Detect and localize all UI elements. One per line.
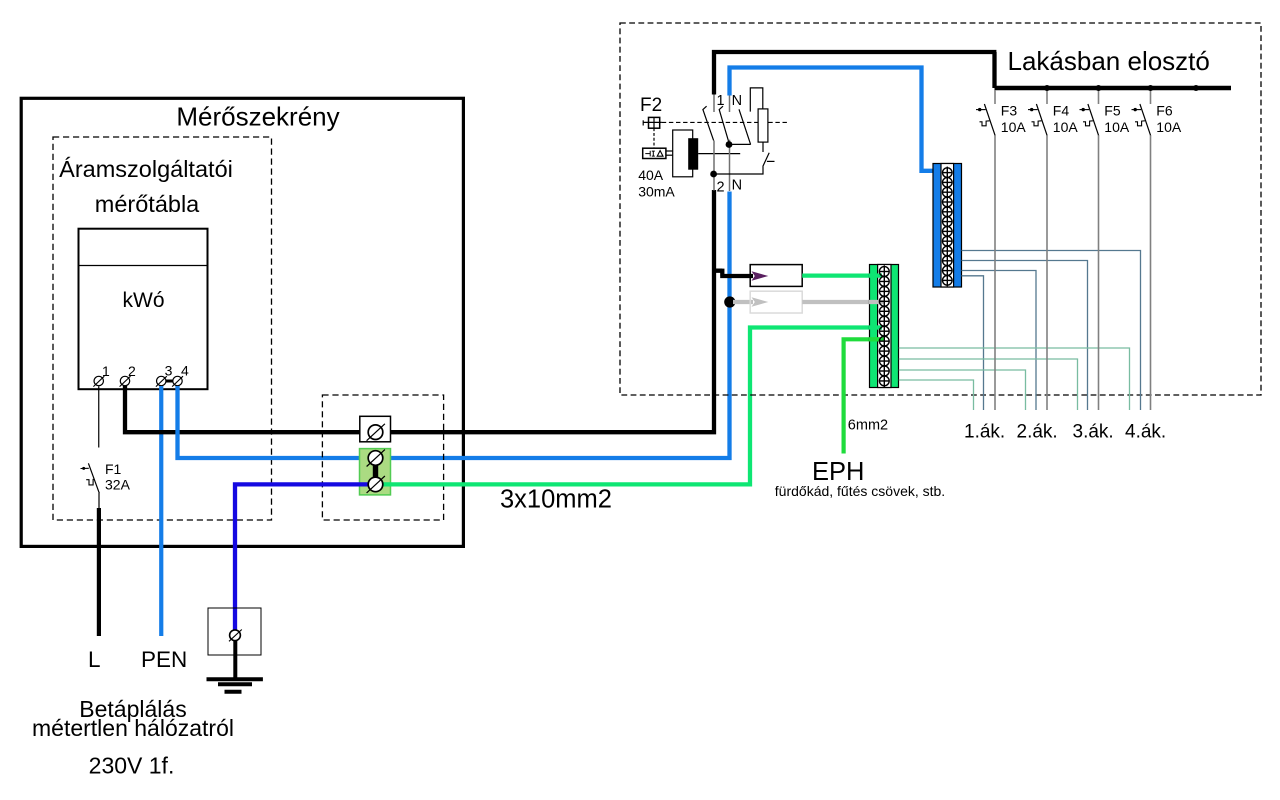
junction dot bus F4 bbox=[1044, 85, 1050, 91]
N block terminal screws bbox=[943, 167, 953, 287]
wire F1 lower stub bbox=[98, 493, 100, 508]
svg-text:mérőtábla: mérőtábla bbox=[95, 191, 200, 217]
N tap arrowhead (gray) bbox=[752, 297, 769, 307]
svg-text:2: 2 bbox=[717, 180, 725, 196]
svg-text:4.ák.: 4.ák. bbox=[1125, 422, 1166, 443]
wire gray end into PE block bbox=[869, 300, 884, 304]
junction dot bus extra bbox=[1193, 85, 1199, 91]
phase tap arrow shaft bbox=[714, 269, 753, 276]
phase tap arrowhead (purple) bbox=[752, 271, 769, 281]
device box 2 bbox=[750, 291, 802, 313]
svg-text:10A: 10A bbox=[1001, 119, 1027, 135]
pin label N top bbox=[732, 93, 742, 109]
svg-text:3x10mm2: 3x10mm2 bbox=[500, 486, 612, 514]
wire N to circuit 2 bbox=[962, 271, 1037, 411]
wire PEN (terminal 3 down) bbox=[159, 386, 163, 636]
label F6 rating 10A bbox=[1156, 119, 1182, 135]
wire PE to circuit 1 bbox=[899, 380, 974, 410]
pin number 1 bbox=[102, 363, 110, 379]
pole N switch blade bbox=[719, 106, 729, 142]
label 40A bbox=[638, 167, 664, 183]
svg-text:PEN: PEN bbox=[141, 647, 187, 672]
wire link terminals 3-4 bbox=[161, 380, 178, 383]
wire feeder F3 down bbox=[994, 135, 996, 410]
label métertlen hálózatról bbox=[32, 715, 234, 741]
breaker F4 bbox=[1028, 104, 1047, 135]
current transformer core (black) bbox=[688, 138, 698, 170]
differential sensor box bbox=[643, 148, 666, 158]
breaker F3 bbox=[976, 104, 995, 135]
svg-text:1: 1 bbox=[102, 363, 110, 379]
label L bbox=[88, 647, 101, 672]
wire N terminal4 down right (light blue) bbox=[178, 192, 732, 461]
test circuit link to N bbox=[730, 143, 751, 145]
label Áramszolgáltatói bbox=[59, 156, 233, 182]
dashed mechanical link horizontal bbox=[662, 121, 789, 123]
bus bar phase (thick black) bbox=[995, 86, 1232, 90]
junction dot bus F5 bbox=[1096, 85, 1102, 91]
terminal 1 of meter bbox=[93, 376, 104, 386]
label F5 rating 10A bbox=[1104, 119, 1130, 135]
label F5 bbox=[1104, 103, 1121, 119]
resistor lower lead bbox=[762, 142, 764, 152]
svg-text:1: 1 bbox=[717, 93, 725, 109]
test switch blade bbox=[763, 153, 775, 167]
label fürdőkád bbox=[775, 483, 945, 499]
svg-text:Mérőszekrény: Mérőszekrény bbox=[176, 101, 339, 131]
svg-text:N: N bbox=[732, 93, 742, 109]
test branch lower lead bbox=[714, 167, 763, 175]
svg-text:F5: F5 bbox=[1104, 103, 1121, 119]
label F1 bbox=[105, 461, 122, 477]
wire feeder F5 down bbox=[1098, 135, 1100, 410]
wire N to circuit 1 bbox=[962, 276, 984, 410]
pole 1 switch blade bbox=[703, 106, 714, 140]
label kWó bbox=[123, 289, 165, 312]
svg-text:L: L bbox=[88, 647, 101, 672]
wire N to circuit 4 bbox=[962, 251, 1141, 411]
label EPH bbox=[812, 458, 864, 486]
label F6 bbox=[1156, 103, 1173, 119]
wire green from box1 to PE block bbox=[802, 274, 882, 278]
wire feeder stub F4 bbox=[1046, 90, 1048, 104]
terminal circle on PE wire bbox=[367, 476, 385, 493]
wire feeder stub F3 bbox=[994, 90, 996, 104]
terminal circle on phase wire bbox=[367, 424, 385, 441]
breaker F6 bbox=[1132, 104, 1151, 135]
device box 1 bbox=[750, 265, 802, 287]
wire EPH (lime green) bbox=[844, 339, 884, 453]
meter kWó box bbox=[79, 229, 208, 390]
wire dark-blue PEN jumper to earth bbox=[235, 484, 371, 629]
svg-text:30mA: 30mA bbox=[638, 184, 675, 200]
enclosure Mérőszekrény box bbox=[21, 98, 463, 546]
svg-text:F6: F6 bbox=[1156, 103, 1173, 119]
label circuit 2.ák. bbox=[1017, 422, 1058, 443]
junction dot N bbox=[726, 141, 733, 148]
terminal 2 of meter bbox=[120, 376, 131, 386]
wire feeder stub F6 bbox=[1150, 90, 1152, 104]
terminal block phase (white square) bbox=[360, 416, 391, 442]
label PEN bbox=[141, 647, 187, 672]
wire feeder F4 down bbox=[1046, 135, 1048, 410]
svg-text:métertlen hálózatról: métertlen hálózatról bbox=[32, 715, 234, 741]
wire PE end into PE block bbox=[869, 325, 882, 329]
PE block terminal screws bbox=[879, 265, 889, 387]
current transformer outline bbox=[673, 130, 693, 177]
pole 1 line upper stub bbox=[713, 95, 715, 113]
label circuit 3.ák. bbox=[1073, 422, 1114, 443]
pin label 1 bbox=[717, 93, 725, 109]
dashed box Lakásban elosztó bbox=[620, 23, 1261, 395]
test button square bbox=[643, 117, 662, 128]
svg-text:Lakásban elosztó: Lakásban elosztó bbox=[1008, 46, 1210, 76]
svg-text:230V 1f.: 230V 1f. bbox=[89, 753, 175, 779]
label F2 bbox=[640, 95, 662, 116]
label circuit 4.ák. bbox=[1125, 422, 1166, 443]
svg-text:fürdőkád, fűtés csövek, stb.: fürdőkád, fűtés csövek, stb. bbox=[775, 483, 945, 499]
wire L (thick black down) bbox=[97, 508, 101, 636]
pin label 2 bbox=[717, 180, 725, 196]
terminal 3 of meter bbox=[156, 376, 167, 386]
wire EPH end into PE block bbox=[869, 337, 884, 341]
N terminal block (blue) bbox=[933, 164, 962, 288]
PE terminal block (green) bbox=[870, 265, 899, 388]
wire PE green 3x10mm2 bbox=[380, 328, 882, 485]
wire phase terminal2 down and right (thick black) bbox=[125, 190, 716, 434]
svg-text:kWó: kWó bbox=[123, 289, 165, 312]
label mérőtábla bbox=[95, 191, 200, 217]
pin number 3 bbox=[165, 363, 173, 379]
test circuit blade bbox=[739, 109, 751, 144]
N tap arrow shaft (gray) bbox=[733, 300, 753, 304]
label Betáplálás bbox=[79, 696, 186, 722]
label circuit 1.ák. bbox=[964, 422, 1005, 443]
label 32A bbox=[105, 477, 131, 493]
pole N line lower bbox=[729, 140, 731, 191]
svg-text:4: 4 bbox=[181, 363, 189, 379]
svg-text:F1: F1 bbox=[105, 461, 122, 477]
label F4 bbox=[1053, 103, 1070, 119]
svg-text:1.ák.: 1.ák. bbox=[964, 422, 1005, 443]
label 3x10mm2 bbox=[500, 486, 612, 514]
svg-text:N: N bbox=[732, 178, 742, 194]
svg-text:10A: 10A bbox=[1156, 119, 1182, 135]
svg-text:3.ák.: 3.ák. bbox=[1073, 422, 1114, 443]
label 30mA bbox=[638, 184, 675, 200]
wire phase top (thick black) bbox=[712, 50, 996, 95]
svg-text:32A: 32A bbox=[105, 477, 131, 493]
svg-text:2: 2 bbox=[128, 363, 136, 379]
breaker F5 bbox=[1080, 104, 1099, 135]
wire gray from box2 to block bbox=[802, 300, 883, 304]
link bar between green terminals bbox=[373, 465, 378, 479]
breaker F1 bbox=[81, 463, 100, 493]
test wire hook over poles bbox=[750, 88, 763, 112]
pin number 4 bbox=[181, 363, 189, 379]
junction dot on N bbox=[724, 296, 735, 307]
junction dot pole1 bbox=[710, 171, 717, 178]
wire to ground bbox=[233, 641, 237, 678]
svg-text:EPH: EPH bbox=[812, 458, 864, 486]
svg-text:10A: 10A bbox=[1053, 119, 1079, 135]
wire green end into PE block bbox=[869, 273, 882, 277]
ground symbol bbox=[207, 679, 263, 692]
dashed mechanical link vertical bbox=[653, 128, 655, 149]
label 6mm2 bbox=[848, 418, 888, 434]
pin label N bottom bbox=[732, 178, 742, 194]
svg-text:F4: F4 bbox=[1053, 103, 1070, 119]
dashed box middle terminals bbox=[322, 395, 443, 520]
pole N line upper stub bbox=[729, 96, 731, 113]
wire PE to circuit 3 bbox=[899, 359, 1078, 410]
junction dot bus F6 bbox=[1148, 85, 1154, 91]
wire feeder F6 down bbox=[1150, 135, 1152, 410]
wire PE to circuit 2 bbox=[899, 370, 1026, 410]
terminal circle on N wire bbox=[367, 450, 385, 467]
transformer output line bbox=[698, 153, 740, 155]
label 230V 1f. bbox=[89, 753, 175, 779]
svg-text:10A: 10A bbox=[1104, 119, 1130, 135]
wire N top (light blue) bbox=[727, 65, 934, 170]
wire PE to circuit 4 bbox=[899, 348, 1130, 410]
dashed box Áramszolgáltatói mérőtábla bbox=[53, 137, 272, 520]
label F3 rating 10A bbox=[1001, 119, 1027, 135]
wire terminal1 to F1 bbox=[98, 386, 100, 447]
wire feeder stub F5 bbox=[1098, 90, 1100, 104]
pole 1 line lower bbox=[713, 141, 715, 191]
label Mérőszekrény bbox=[176, 101, 339, 131]
green highlight PE/N terminal block bbox=[360, 449, 391, 495]
svg-text:6mm2: 6mm2 bbox=[848, 418, 888, 434]
terminal circle earth bbox=[229, 630, 242, 642]
terminal 4 of meter bbox=[172, 376, 183, 386]
label F3 bbox=[1001, 103, 1018, 119]
svg-text:40A: 40A bbox=[638, 167, 664, 183]
svg-text:2.ák.: 2.ák. bbox=[1017, 422, 1058, 443]
pin number 2 bbox=[128, 363, 136, 379]
sensor connection line bbox=[666, 151, 673, 155]
test resistor bbox=[758, 109, 768, 142]
label Lakásban elosztó bbox=[1008, 46, 1210, 76]
svg-text:F3: F3 bbox=[1001, 103, 1018, 119]
svg-text:3: 3 bbox=[165, 363, 173, 379]
wire N to circuit 3 bbox=[962, 261, 1088, 411]
label F4 rating 10A bbox=[1053, 119, 1079, 135]
svg-text:Áramszolgáltatói: Áramszolgáltatói bbox=[59, 156, 233, 182]
earth connection box bbox=[208, 608, 261, 655]
svg-text:F2: F2 bbox=[640, 95, 662, 116]
